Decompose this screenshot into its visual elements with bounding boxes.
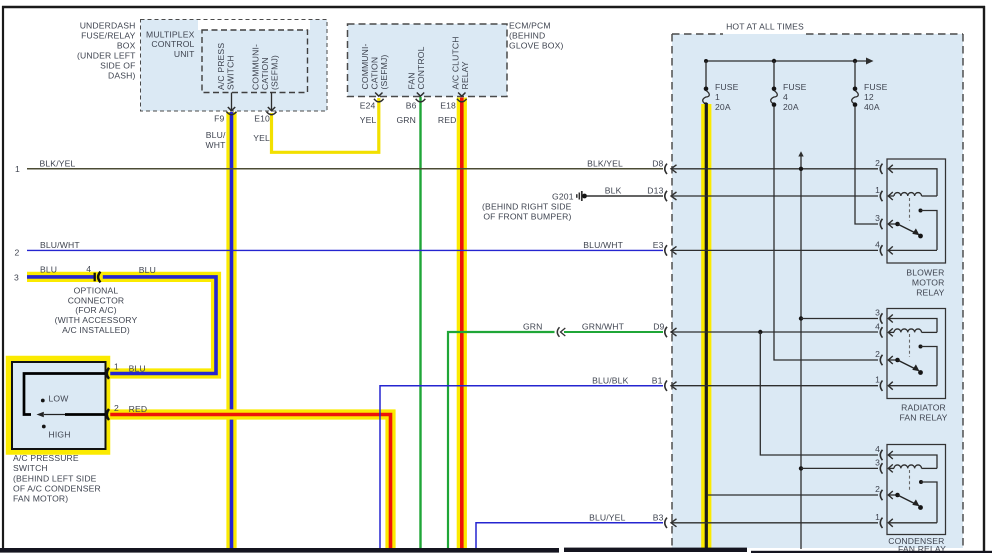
svg-text:RELAY: RELAY <box>916 287 944 297</box>
svg-text:BLK/YEL: BLK/YEL <box>40 158 76 168</box>
svg-text:20A: 20A <box>783 102 799 112</box>
bus junction fuse 4 <box>772 59 776 63</box>
blower pin 4 connector <box>880 245 882 255</box>
inline connector GRN/GRN-WHT <box>557 327 559 337</box>
connector B1 at power box edge <box>665 381 667 391</box>
pressure switch wiper arrow <box>44 414 65 416</box>
blower pin 3 connector <box>880 219 882 229</box>
pressure switch internal pin2 path <box>65 413 105 416</box>
svg-text:(BEHIND LEFT SIDE: (BEHIND LEFT SIDE <box>13 473 97 483</box>
svg-text:MULTIPLEX: MULTIPLEX <box>146 30 195 40</box>
blower relay switch arm <box>895 222 900 227</box>
svg-text:RELAY: RELAY <box>460 61 470 89</box>
pin E24 arrow and connector <box>375 93 382 97</box>
svg-text:BLU/: BLU/ <box>206 130 226 140</box>
svg-text:RED: RED <box>129 404 148 414</box>
wire BLU/WHT E3 to blower relay pin 4 <box>671 249 878 251</box>
svg-text:A/C PRESSURE: A/C PRESSURE <box>13 453 79 463</box>
svg-text:SIDE OF: SIDE OF <box>100 61 135 71</box>
border frame left <box>2 6 4 552</box>
svg-text:FAN RELAY: FAN RELAY <box>900 412 948 422</box>
svg-text:E3: E3 <box>653 240 664 250</box>
svg-text:4: 4 <box>783 92 788 102</box>
connector B3 at power box edge <box>665 518 667 528</box>
svg-text:A/C PRESS: A/C PRESS <box>216 43 226 90</box>
radiator pin 3 connector <box>880 313 882 323</box>
condenser pin 1 connector <box>880 518 882 528</box>
pin F9 arrow and connector <box>228 107 235 111</box>
wire GRN fan control B6 vertical <box>419 97 421 548</box>
svg-text:CONTROL: CONTROL <box>416 46 426 89</box>
condenser relay coil <box>888 467 894 469</box>
fuse F1 20A <box>705 61 707 89</box>
svg-text:COMMUNI-: COMMUNI- <box>360 43 370 89</box>
border frame bottom segment 3 <box>751 551 992 553</box>
branch BLK/YEL vertical with up arrow <box>800 155 802 549</box>
multiplex control unit U1 outer dashed box <box>141 20 328 112</box>
svg-text:BLU: BLU <box>139 265 156 275</box>
wire RED pressure switch pin 2 (highlighted) <box>110 415 391 549</box>
blower relay NO contact <box>919 209 923 213</box>
fuse F4 20A <box>773 61 775 89</box>
wire BLU/WHT row 2 <box>27 249 663 251</box>
svg-text:BLK: BLK <box>605 186 622 196</box>
fuse F12 40A <box>854 61 856 89</box>
relay K2 radiator fan relay box <box>887 309 946 399</box>
bus junction fuse 12 <box>853 59 857 63</box>
radiator pin 4 connector <box>880 327 882 337</box>
svg-text:(BEHIND RIGHT SIDE: (BEHIND RIGHT SIDE <box>482 201 572 211</box>
svg-text:FAN: FAN <box>407 72 417 89</box>
connector D8 at power box edge <box>665 164 667 174</box>
svg-text:BLU/WHT: BLU/WHT <box>40 240 80 250</box>
pin E18 arrow and connector <box>458 93 465 97</box>
svg-text:FUSE/RELAY: FUSE/RELAY <box>81 31 135 41</box>
svg-text:G201: G201 <box>552 192 574 202</box>
condenser pin 1 internal wire <box>888 522 937 524</box>
svg-text:(UNDER LEFT: (UNDER LEFT <box>77 51 136 61</box>
condenser relay actuation dashed link <box>909 470 911 492</box>
HOT AT ALL TIMES power box fill <box>672 34 963 548</box>
connector D13 at power box edge <box>665 191 667 201</box>
svg-text:1: 1 <box>875 512 880 522</box>
wire BLK to D13 <box>587 195 664 197</box>
blower relay coil <box>888 195 894 197</box>
svg-text:OF A/C CONDENSER: OF A/C CONDENSER <box>13 483 101 493</box>
svg-text:B6: B6 <box>406 101 417 111</box>
svg-text:BLOWER: BLOWER <box>906 267 944 277</box>
junction dot radiator pin 3 branch <box>799 316 803 320</box>
svg-text:RADIATOR: RADIATOR <box>901 402 946 412</box>
wire BLU row 3 to pressure switch pin 1 (highlighted) <box>27 277 216 374</box>
blower pin 4 internal wire <box>888 249 937 251</box>
svg-text:4: 4 <box>875 239 880 249</box>
svg-text:CONTROL: CONTROL <box>151 39 194 49</box>
svg-text:FUSE: FUSE <box>864 82 888 92</box>
connector E3 at power box edge <box>665 245 667 255</box>
svg-text:B3: B3 <box>653 513 664 523</box>
radiator relay switch arm <box>895 358 900 363</box>
svg-text:F9: F9 <box>214 114 224 124</box>
wire GRN/WHT to D9 <box>564 331 663 333</box>
wire BLU/WHT from F9 (highlighted) <box>226 112 236 548</box>
contact dot HIGH <box>42 425 46 429</box>
svg-text:(WITH ACCESSORY: (WITH ACCESSORY <box>55 315 138 325</box>
multiplex control unit box fill <box>141 20 328 112</box>
pin B6 arrow and connector <box>417 93 424 97</box>
A/C pressure switch S1 box (highlighted) <box>9 359 108 453</box>
svg-text:1: 1 <box>875 185 880 195</box>
white strip above multiplex inner box <box>198 20 310 31</box>
inline connector 4 <box>96 273 103 280</box>
wire fuse 12 to blower relay pin 3 <box>855 106 878 224</box>
radiator relay coil <box>888 331 894 333</box>
blower pin 2 connector <box>880 164 882 174</box>
pin F9 lead <box>231 93 233 110</box>
svg-text:(SEFMJ): (SEFMJ) <box>270 55 280 90</box>
svg-text:FAN MOTOR): FAN MOTOR) <box>13 493 68 503</box>
wire YEL E10 to E24 <box>272 98 379 152</box>
svg-text:CONNECTOR: CONNECTOR <box>68 295 125 305</box>
svg-text:YEL: YEL <box>253 133 270 143</box>
border frame bottom segment 2 <box>564 548 747 552</box>
svg-text:(FOR A/C): (FOR A/C) <box>75 305 116 315</box>
svg-text:4: 4 <box>86 264 91 274</box>
svg-text:A/C INSTALLED): A/C INSTALLED) <box>62 325 130 335</box>
blower pin 2 internal wire <box>888 169 937 196</box>
junction dot D9 branch <box>758 330 762 334</box>
svg-text:BOX: BOX <box>117 41 136 51</box>
multiplex inner dashed box <box>202 30 308 93</box>
blower pin 3 internal wire <box>888 223 898 225</box>
svg-text:3: 3 <box>14 273 19 283</box>
pin E10 arrow and connector <box>268 107 275 111</box>
svg-text:1: 1 <box>15 164 20 174</box>
border frame right <box>983 6 985 553</box>
svg-text:UNIT: UNIT <box>174 49 195 59</box>
svg-text:BLU/BLK: BLU/BLK <box>592 375 629 385</box>
condenser pin 2 connector <box>880 490 882 500</box>
wire BLU/BLK B1 to radiator relay pin 1 <box>671 385 878 387</box>
pressure switch pin 2 connector <box>107 409 109 420</box>
border frame bottom segment 1 <box>0 548 559 553</box>
border frame top <box>2 6 985 8</box>
svg-text:BLU: BLU <box>40 265 57 275</box>
svg-text:4: 4 <box>875 444 880 454</box>
wire D9 branch to condenser relay pin 4 <box>760 332 878 455</box>
blower relay actuation dashed link <box>909 198 911 221</box>
svg-text:E24: E24 <box>360 101 376 111</box>
ground G201 symbol <box>576 194 578 198</box>
svg-text:20A: 20A <box>715 102 731 112</box>
svg-text:GRN/WHT: GRN/WHT <box>582 322 625 332</box>
svg-text:HOT AT ALL TIMES: HOT AT ALL TIMES <box>726 22 804 32</box>
ECM/PCM U2 dashed box <box>348 24 508 97</box>
power bus line <box>706 60 867 62</box>
wire BLK/YEL row 1 <box>27 168 663 170</box>
condenser pin 4 connector <box>880 450 882 460</box>
wire fuse 1 to condenser relay pin 2 <box>708 494 878 496</box>
radiator pin 1 internal wire <box>888 385 937 387</box>
svg-text:BLK/YEL: BLK/YEL <box>587 158 623 168</box>
svg-text:HIGH: HIGH <box>49 430 71 440</box>
svg-text:FUSE: FUSE <box>783 82 807 92</box>
svg-text:12: 12 <box>864 92 874 102</box>
radiator pin 1 connector <box>880 381 882 391</box>
svg-text:CATION: CATION <box>260 57 270 90</box>
contact dot LOW <box>41 399 45 403</box>
svg-text:ECM/PCM: ECM/PCM <box>509 21 551 31</box>
svg-text:1: 1 <box>875 375 880 385</box>
wire RED A/C clutch E18 vertical (highlighted) <box>457 98 467 549</box>
svg-text:D9: D9 <box>653 322 664 332</box>
svg-text:2: 2 <box>15 248 20 258</box>
svg-text:D13: D13 <box>647 186 663 196</box>
svg-text:CATION: CATION <box>370 57 380 90</box>
ECM/PCM box fill <box>348 24 508 97</box>
svg-text:GLOVE BOX): GLOVE BOX) <box>509 41 564 51</box>
svg-text:3: 3 <box>875 308 880 318</box>
bus junction fuse 1 <box>704 59 708 63</box>
pin E10 lead <box>271 93 273 110</box>
wire fuse 4 to radiator relay pin 2 <box>774 106 878 360</box>
wire GRN/WHT D9 to radiator relay pin 4 <box>671 331 878 333</box>
svg-text:E10: E10 <box>254 114 270 124</box>
wire BLK D13 to blower relay pin 1 <box>671 195 878 197</box>
svg-text:(BEHIND: (BEHIND <box>509 31 545 41</box>
relay K3 condenser fan relay box <box>887 445 946 535</box>
svg-text:1: 1 <box>114 362 119 372</box>
svg-text:E18: E18 <box>440 101 456 111</box>
relay K1 blower motor relay box <box>887 159 946 263</box>
svg-text:2: 2 <box>875 349 880 359</box>
wire BLU/YEL B3 to condenser relay pin 1 <box>671 522 878 524</box>
svg-text:2: 2 <box>114 403 119 413</box>
wire BLK/YEL D8 to blower relay pin 2 <box>671 168 878 170</box>
wire BLK/YEL fuse 1 output (highlighted) <box>701 104 711 549</box>
svg-text:YEL: YEL <box>360 115 377 125</box>
svg-text:4: 4 <box>875 321 880 331</box>
junction dot D8 branch <box>799 167 803 171</box>
svg-text:FUSE: FUSE <box>715 82 739 92</box>
svg-text:A/C CLUTCH: A/C CLUTCH <box>451 36 461 89</box>
svg-text:BLU/WHT: BLU/WHT <box>583 240 623 250</box>
connector D9 at power box edge <box>665 327 667 337</box>
radiator relay NO contact <box>919 345 923 349</box>
svg-text:DASH): DASH) <box>108 71 136 81</box>
wire GRN to inline connector <box>448 332 555 548</box>
wire BLU/YEL to B3 <box>476 523 663 548</box>
svg-text:SWITCH: SWITCH <box>13 463 48 473</box>
svg-text:RED: RED <box>438 115 457 125</box>
radiator relay actuation dashed link <box>909 334 911 357</box>
wire BLU/BLK to B1 <box>380 386 663 548</box>
svg-text:LOW: LOW <box>49 394 70 404</box>
svg-text:2: 2 <box>875 158 880 168</box>
svg-text:SWITCH: SWITCH <box>226 55 236 90</box>
junction dot condenser pin 3 branch <box>799 466 803 470</box>
svg-text:3: 3 <box>875 213 880 223</box>
svg-text:COMMUNI-: COMMUNI- <box>251 44 261 90</box>
svg-text:BLU: BLU <box>129 363 146 373</box>
condenser pin 4 internal wire <box>888 455 937 468</box>
svg-text:2: 2 <box>875 484 880 494</box>
svg-text:GRN: GRN <box>396 115 416 125</box>
condenser pin 3 connector <box>880 463 882 473</box>
svg-text:OF FRONT BUMPER): OF FRONT BUMPER) <box>483 211 571 221</box>
svg-text:BLU/YEL: BLU/YEL <box>589 513 625 523</box>
svg-text:B1: B1 <box>652 375 663 385</box>
svg-text:GRN: GRN <box>523 322 543 332</box>
radiator pin 3 internal wire <box>888 319 937 333</box>
svg-text:OPTIONAL: OPTIONAL <box>74 286 119 296</box>
blower pin 1 connector <box>880 191 882 201</box>
pressure switch pin 1 connector <box>107 368 109 379</box>
svg-text:3: 3 <box>875 457 880 467</box>
radiator pin 2 connector <box>880 355 882 365</box>
svg-text:(SEFMJ): (SEFMJ) <box>379 55 389 90</box>
wire condenser pin 3 feed <box>801 467 878 469</box>
condenser pin 2 internal wire <box>888 494 898 496</box>
svg-text:40A: 40A <box>864 102 880 112</box>
svg-text:D8: D8 <box>652 158 663 168</box>
HOT AT ALL TIMES dashed box <box>672 33 723 35</box>
svg-text:1: 1 <box>715 92 720 102</box>
svg-text:UNDERDASH: UNDERDASH <box>80 21 136 31</box>
wire radiator pin 3 feed <box>801 318 878 320</box>
pressure switch internal contact path <box>24 374 105 415</box>
svg-text:WHT: WHT <box>205 140 226 150</box>
svg-text:MOTOR: MOTOR <box>912 277 945 287</box>
condenser relay switch arm <box>895 493 900 498</box>
radiator pin 2 internal wire <box>888 359 898 361</box>
condenser relay NO contact <box>919 480 923 484</box>
